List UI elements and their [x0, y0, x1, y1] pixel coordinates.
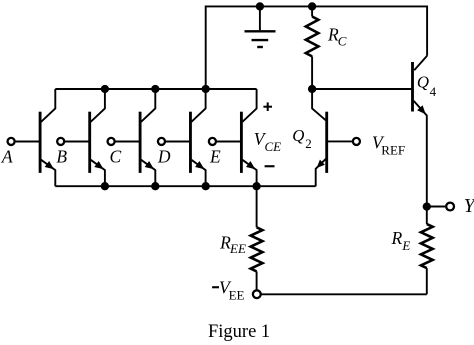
- svg-text:C: C: [110, 146, 122, 166]
- svg-text:Q: Q: [292, 126, 304, 145]
- svg-text:4: 4: [430, 84, 437, 99]
- svg-text:A: A: [1, 146, 13, 166]
- svg-text:E: E: [401, 238, 410, 253]
- svg-text:E: E: [209, 146, 221, 166]
- svg-text:REF: REF: [381, 143, 405, 158]
- svg-text:2: 2: [305, 136, 312, 151]
- svg-text:B: B: [56, 146, 67, 166]
- svg-text:Figure 1: Figure 1: [208, 322, 270, 342]
- svg-text:R: R: [391, 228, 403, 248]
- svg-text:EE: EE: [229, 287, 245, 302]
- svg-text:Q: Q: [417, 72, 429, 91]
- svg-text:CE: CE: [265, 139, 282, 154]
- svg-text:Y: Y: [464, 196, 474, 217]
- svg-text:C: C: [338, 34, 347, 49]
- svg-text:D: D: [157, 146, 171, 166]
- svg-text:EE: EE: [229, 241, 246, 256]
